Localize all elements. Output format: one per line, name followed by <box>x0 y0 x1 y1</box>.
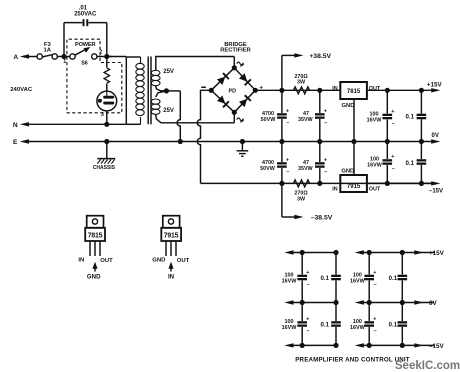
node bridge right <box>253 88 258 93</box>
svg-text:+: + <box>391 154 394 160</box>
terminal N <box>13 122 29 129</box>
resistor (lamp ballast) <box>104 68 109 83</box>
earth ground on 0V <box>237 139 249 156</box>
capacitor 47 35VW (bottom) <box>298 142 327 184</box>
svg-text:PD: PD <box>229 88 237 94</box>
node bridge left <box>209 88 214 93</box>
node -15 rail 0.1 <box>419 181 424 186</box>
capacitor 4700 50VW (top) <box>261 90 290 141</box>
svg-text:–: – <box>324 169 327 175</box>
svg-text:0.1: 0.1 <box>389 321 398 328</box>
diode D4 (bottom-right) <box>239 95 252 108</box>
capacitor 0.1 (top) <box>406 90 427 141</box>
svg-text:50VW: 50VW <box>261 117 277 123</box>
package 7815 (TO-220 outline) <box>78 216 113 281</box>
svg-text:7915: 7915 <box>347 184 361 190</box>
wire bridge plus to rail <box>255 89 340 91</box>
svg-text:–: – <box>286 169 289 175</box>
svg-text:CHASSIS: CHASSIS <box>93 165 116 171</box>
svg-text:+: + <box>324 108 327 114</box>
svg-text:+: + <box>373 270 376 276</box>
node +15 rail 100 <box>385 88 390 93</box>
svg-text:RECTIFIER: RECTIFIER <box>220 48 251 54</box>
wire 7915 OUT to -15V <box>367 182 434 184</box>
preamp 0V rail (left block) <box>284 300 338 305</box>
regulator U1 7815 <box>332 82 381 109</box>
+15V arrow <box>427 82 443 93</box>
svg-text:16VW: 16VW <box>350 325 366 331</box>
svg-text:16VW: 16VW <box>350 278 366 284</box>
svg-text:240VAC: 240VAC <box>10 87 33 93</box>
transformer secondary 25V top <box>151 57 234 91</box>
resistor 270 ohm 3W (top) <box>294 74 310 94</box>
svg-text:0.1: 0.1 <box>321 275 330 282</box>
preamp -15V rail (right block) <box>355 343 445 350</box>
label BRIDGE RECTIFIER <box>220 42 251 54</box>
capacitor 100 16VW (bottom) <box>367 142 395 184</box>
fuse F3 1A <box>37 42 57 59</box>
svg-text:25V: 25V <box>163 69 174 75</box>
svg-text:0V: 0V <box>432 133 439 139</box>
svg-text:–38.5V: –38.5V <box>311 215 333 222</box>
wire E 0V rail <box>26 141 436 143</box>
svg-text:PREAMPLIFIER AND CONTROL UNIT: PREAMPLIFIER AND CONTROL UNIT <box>295 356 410 363</box>
svg-text:+: + <box>306 316 309 322</box>
capacitor 100 16VW (preamp right lower) <box>350 303 377 346</box>
chassis ground <box>93 142 116 171</box>
svg-text:OUT: OUT <box>369 187 381 193</box>
svg-text:7815: 7815 <box>88 233 103 240</box>
bridge rectifier PD <box>201 57 263 123</box>
svg-text:OUT: OUT <box>369 86 381 92</box>
wire minus rail <box>201 182 435 184</box>
node plus rail 47 <box>317 88 322 93</box>
svg-text:+: + <box>306 270 309 276</box>
capacitor 0.1 (preamp left upper) <box>321 253 341 303</box>
preamp +15V rail (left block) <box>284 250 338 255</box>
svg-text:0.1: 0.1 <box>321 321 330 328</box>
svg-text:S6: S6 <box>81 61 88 67</box>
svg-text:35VW: 35VW <box>298 166 314 172</box>
svg-text:IN: IN <box>332 86 337 92</box>
0V arrow <box>431 133 440 144</box>
svg-text:+15V: +15V <box>429 250 445 257</box>
svg-text:–: – <box>374 328 377 334</box>
capacitor 0.1 (preamp right lower) <box>389 303 407 346</box>
regulator U2 7915 <box>332 169 381 193</box>
svg-text:+: + <box>286 108 289 114</box>
svg-text:A: A <box>13 54 18 61</box>
svg-text:3W: 3W <box>297 196 306 202</box>
node bridge top <box>232 65 237 70</box>
node plus rail 4700 <box>279 88 284 93</box>
svg-text:GND: GND <box>342 103 355 109</box>
svg-text:16VW: 16VW <box>367 117 383 123</box>
node E chassis junction <box>104 139 109 144</box>
transformer secondary 25V bottom <box>151 91 234 123</box>
preamp +15V rail (right block) <box>355 250 445 257</box>
svg-text:+38.5V: +38.5V <box>309 53 331 60</box>
svg-text:1A: 1A <box>44 47 52 53</box>
node gnd on 0V <box>351 139 356 144</box>
svg-text:–: – <box>307 282 310 288</box>
svg-text:16VW: 16VW <box>282 278 298 284</box>
wire N rail <box>26 123 126 125</box>
svg-text:0V: 0V <box>429 300 438 307</box>
svg-text:GND: GND <box>87 274 101 281</box>
terminal A <box>13 54 37 61</box>
node +15 rail 0.1 <box>419 88 424 93</box>
svg-text:–: – <box>324 120 327 126</box>
svg-text:POWER: POWER <box>75 42 95 48</box>
transformer primary <box>107 57 144 125</box>
svg-text:0.1: 0.1 <box>406 114 415 121</box>
node 1 <box>61 54 66 65</box>
svg-text:+: + <box>324 157 327 163</box>
transformer core <box>148 57 151 125</box>
node minus rail 4700 <box>279 181 284 186</box>
svg-text:3W: 3W <box>297 80 306 86</box>
svg-text:–: – <box>374 282 377 288</box>
svg-text:OUT: OUT <box>177 258 190 264</box>
capacitor 47 35VW (top) <box>298 90 327 141</box>
terminal E <box>13 139 29 146</box>
svg-text:0.1: 0.1 <box>389 275 398 282</box>
svg-text:+: + <box>391 109 394 115</box>
svg-text:IN: IN <box>168 274 174 281</box>
svg-text:+: + <box>286 157 289 163</box>
svg-text:50VW: 50VW <box>260 166 276 172</box>
svg-text:–15V: –15V <box>429 343 445 350</box>
svg-text:0.1: 0.1 <box>406 160 415 167</box>
svg-text:16VW: 16VW <box>282 325 298 331</box>
node minus rail 47 <box>317 181 322 186</box>
svg-text:25V: 25V <box>163 108 174 114</box>
capacitor 4700 50VW (bottom) <box>260 142 289 184</box>
svg-text:E: E <box>13 139 18 146</box>
capacitor .01 250VAC <box>64 6 107 57</box>
resistor 270 ohm 3W (bottom) <box>294 180 310 202</box>
svg-text:7915: 7915 <box>164 233 179 240</box>
svg-text:–: – <box>286 120 289 126</box>
svg-text:IN: IN <box>332 187 337 193</box>
wire fuse to node 1 <box>57 56 62 58</box>
svg-text:–15V: –15V <box>429 188 443 194</box>
svg-text:SeekIC.com: SeekIC.com <box>395 360 460 372</box>
svg-text:16VW: 16VW <box>367 162 383 168</box>
-15V arrow <box>429 181 443 194</box>
node N lamp junction <box>104 122 109 127</box>
svg-text:OUT: OUT <box>100 258 113 264</box>
svg-text:1: 1 <box>63 59 66 65</box>
diode D3 (left-bottom) <box>217 95 230 108</box>
capacitor 100 16VW (top) <box>367 90 395 141</box>
capacitor 0.1 (preamp right upper) <box>389 253 407 303</box>
capacitor 100 16VW (preamp right upper) <box>350 253 377 303</box>
svg-text:7815: 7815 <box>347 89 361 95</box>
capacitor 0.1 (bottom) <box>406 142 427 184</box>
svg-text:35VW: 35VW <box>298 117 314 123</box>
switch S6 <box>66 47 102 67</box>
diode D1 (left-top) <box>217 72 230 85</box>
node center tap to 0V <box>178 139 183 144</box>
package 7915 (TO-220 outline) <box>152 216 189 281</box>
wire center tap drop to 0V (hops bottom AC line) <box>177 91 180 142</box>
svg-text:GND: GND <box>152 257 165 263</box>
node 2 <box>97 54 112 59</box>
svg-text:3: 3 <box>101 112 104 118</box>
node -15 rail 100 <box>385 181 390 186</box>
wire bottom AC stub <box>233 112 235 123</box>
svg-text:+15V: +15V <box>427 82 443 89</box>
+38.5V arrow <box>282 53 332 90</box>
svg-text:N: N <box>13 122 18 129</box>
capacitor 0.1 (preamp left lower) <box>321 303 341 346</box>
preamp 0V rail (right block) <box>355 300 438 307</box>
svg-text:–: – <box>307 328 310 334</box>
-38.5V arrow <box>282 183 333 221</box>
diode D2 (top-right) <box>239 73 252 86</box>
wire 7815 OUT to +15V <box>367 89 434 91</box>
svg-text:–: – <box>392 121 395 127</box>
neon lamp <box>97 91 117 124</box>
capacitor 100 16VW (preamp left upper) <box>282 253 310 303</box>
power switch dashed enclosure <box>67 39 122 113</box>
preamp -15V rail (left block) <box>284 343 338 348</box>
svg-text:250VAC: 250VAC <box>74 11 97 17</box>
wire bridge minus drop (hops AC and 0V lines) <box>197 90 211 183</box>
node bridge bottom <box>232 110 237 115</box>
svg-text:+: + <box>373 316 376 322</box>
svg-text:IN: IN <box>78 257 84 263</box>
node center tap <box>164 88 169 93</box>
0V rail nodes <box>279 139 284 144</box>
capacitor 100 16VW (preamp left lower) <box>282 303 310 346</box>
wire 7815 GND to 0V to 7915 GND <box>353 99 355 175</box>
svg-text:–: – <box>392 166 395 172</box>
svg-text:GND: GND <box>341 169 354 175</box>
